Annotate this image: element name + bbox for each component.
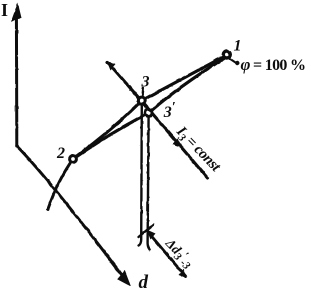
- svg-text:d: d: [139, 272, 149, 293]
- curve extension below point 2: [48, 159, 73, 209]
- wire segment 3 to 1: [142, 57, 224, 101]
- point 3: [138, 97, 145, 104]
- leader from 1 to phi label: [228, 58, 236, 63]
- arrowhead mid on I3 line: [172, 139, 183, 149]
- wire segment 3' to 1: [149, 59, 224, 114]
- svg-text:3: 3: [141, 74, 150, 91]
- axis d (diagonal): [17, 146, 128, 283]
- wire segment 2 to 3': [73, 113, 149, 159]
- svg-text:1: 1: [234, 38, 242, 55]
- arrowhead of axis I: [11, 3, 22, 22]
- svg-text:φ = 100 %: φ = 100 %: [241, 55, 306, 74]
- dot before phi: [235, 61, 239, 65]
- point 3': [145, 110, 152, 117]
- arrowhead up-left on leader: [147, 230, 156, 240]
- line I3=const: [108, 62, 208, 178]
- point 1: [223, 51, 230, 58]
- leader line for delta-d: [148, 232, 186, 277]
- svg-text:I: I: [1, 0, 8, 20]
- tick below label 3: [141, 88, 144, 96]
- arrowhead of axis d: [117, 270, 131, 286]
- flare at leader end: [179, 269, 187, 278]
- point 2: [70, 156, 77, 163]
- vertical drop line from 3': [148, 117, 150, 250]
- wire junction blob at 1: [213, 56, 224, 61]
- vertical drop line from 3: [139, 105, 142, 246]
- arrowhead up-left on I3 line: [107, 61, 116, 71]
- axis I (vertical): [15, 10, 18, 146]
- svg-text:2: 2: [56, 145, 65, 162]
- tick X across drop lines: [139, 225, 154, 238]
- wire segment 2 to 3: [74, 101, 142, 159]
